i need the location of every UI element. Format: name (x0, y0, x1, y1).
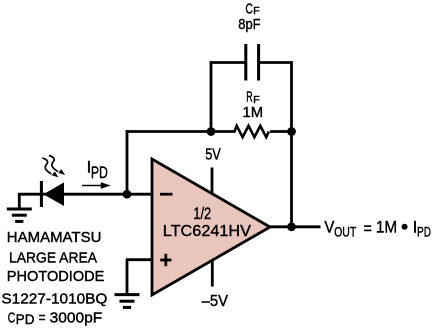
svg-text:C: C (8, 310, 16, 326)
svg-text:3000pF: 3000pF (50, 310, 103, 326)
label 1M (243, 105, 264, 121)
ground: photodiode ground symbol (7, 209, 32, 221)
label PHOTODIODE (7, 269, 105, 285)
capacitor CF (246, 44, 259, 81)
resistor RF (235, 126, 269, 137)
svg-text:S1227-1010BQ: S1227-1010BQ (1, 291, 107, 307)
label -5V (202, 293, 229, 310)
wire: feedback right vertical (cap level to output) (290, 61, 293, 228)
op-amp inverting input minus symbol (160, 193, 173, 196)
label CF (245, 1, 259, 17)
wire: inverting input from photodiode to op-amp (18, 193, 153, 196)
wire: feedback branch vertical (node A up to RF wire) (126, 130, 129, 194)
svg-text:–5V: –5V (202, 293, 229, 310)
wire: feedback horizontal right (RF to output branch) (270, 130, 293, 133)
svg-text:=: = (364, 220, 372, 238)
node D: output junction dot (287, 222, 296, 231)
label HAMAMATSU (7, 230, 102, 246)
IPD current arrow (82, 182, 111, 189)
svg-text:8pF: 8pF (238, 17, 260, 33)
svg-text:R: R (246, 90, 252, 106)
node C: feedback right junction dot (287, 127, 296, 136)
wire: photodiode anode to ground drop (18, 193, 21, 208)
photodiode light arrows (42, 156, 65, 178)
node A: inverting input junction dot (123, 190, 132, 199)
svg-text:HAMAMATSU: HAMAMATSU (7, 230, 102, 246)
wire: capacitor branch left vertical (210, 61, 213, 131)
svg-text:1M: 1M (376, 219, 397, 237)
wire: feedback horizontal left (to RF) (126, 130, 236, 133)
svg-text:PD: PD (16, 312, 35, 327)
svg-text:F: F (253, 5, 260, 17)
label S1227-1010BQ (1, 291, 107, 307)
svg-text:=: = (39, 310, 46, 326)
svg-text:V: V (324, 219, 334, 237)
label 1/2 (193, 205, 211, 223)
wire: -5V supply stub (211, 261, 214, 287)
label RF (246, 90, 259, 106)
label CPD = 3000pF (8, 310, 103, 327)
wire: capacitor left horizontal (210, 61, 246, 64)
svg-text:5V: 5V (205, 147, 221, 164)
svg-text:1/2: 1/2 (193, 205, 211, 223)
svg-text:OUT: OUT (334, 223, 357, 239)
svg-text:PD: PD (91, 163, 108, 182)
label 8pF (238, 17, 260, 33)
svg-text:LTC6241HV: LTC6241HV (163, 223, 252, 240)
svg-text:C: C (245, 1, 253, 17)
label LTC6241HV (163, 223, 252, 240)
label VOUT = 1M * IPD (324, 219, 431, 240)
label 5V (205, 147, 221, 164)
svg-text:1M: 1M (243, 105, 264, 121)
svg-text:LARGE AREA: LARGE AREA (9, 251, 97, 267)
svg-text:F: F (253, 94, 260, 106)
svg-text:PHOTODIODE: PHOTODIODE (7, 269, 105, 285)
photodiode D1 (HAMAMATSU S1227-1010BQ) (40, 181, 64, 207)
label IPD (87, 158, 108, 182)
label LARGE AREA (9, 251, 97, 267)
svg-text:PD: PD (417, 223, 431, 239)
wire: output (268, 225, 321, 228)
op-amp non-inverting input plus symbol (160, 254, 171, 266)
wire: 5V supply stub (211, 168, 214, 194)
op-amp U1 (1/2 LTC6241HV) (152, 159, 270, 295)
node B: capacitor branch left junction dot (207, 127, 216, 136)
wire: capacitor right horizontal (259, 61, 293, 64)
wire: non-inverting input to ground (126, 260, 153, 294)
ground: non-inverting input ground symbol (115, 295, 140, 308)
